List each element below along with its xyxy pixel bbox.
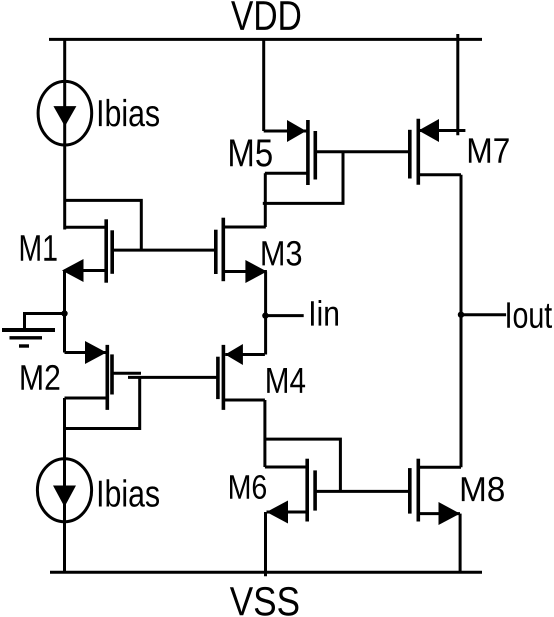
wire: M2 diode connection jog: [65, 377, 140, 428]
current source Ibias1: [38, 81, 92, 145]
M8 label: [462, 477, 504, 502]
M6 label: [230, 475, 266, 499]
transistor M2: [65, 351, 108, 354]
wire: VDD down to M5 source: [262, 39, 265, 131]
transistor M4: [225, 353, 265, 356]
node Iout junction dot: [458, 312, 464, 318]
transistor M7: [418, 129, 465, 132]
VDD rail: [49, 38, 482, 41]
ground: [25, 314, 65, 331]
wire: VDD down through Ibias1 to M1 drain node: [63, 39, 66, 229]
transistor M5: [264, 130, 308, 133]
M3 label: [262, 241, 301, 266]
wire: M5 drain down to M3 drain: [264, 173, 267, 227]
wire: Iin stub: [265, 314, 303, 317]
wire: gate line M5-M7: [315, 150, 410, 153]
VDD label: [231, 1, 300, 30]
wire: M2 drain down through Ibias2 to VSS: [63, 398, 66, 572]
wire: M4 drain down to M6 drain: [263, 400, 266, 467]
wire: gate line M1-M3: [112, 249, 215, 252]
current source Ibias2: [37, 459, 91, 522]
transistor M6: [265, 466, 307, 469]
wire: M1 diode connection jog: [65, 200, 142, 251]
VSS rail: [50, 571, 482, 574]
wire: M1 source to ground node to M2 source: [63, 271, 66, 353]
transistor M3: [214, 230, 218, 274]
M1 label: [21, 235, 57, 260]
Iout label: [507, 302, 552, 328]
M7 label: [469, 138, 509, 162]
wire: Iout stub: [461, 313, 506, 316]
wire: gate line M6-M8: [315, 490, 410, 493]
wire: gate line M2-M4: [128, 376, 218, 379]
transistor M8: [408, 468, 412, 513]
M4 label: [267, 368, 305, 393]
Iin label: [311, 300, 338, 326]
VSS label: [230, 587, 299, 616]
Ibias label (bottom): [99, 479, 159, 507]
node Iin junction dot: [262, 312, 268, 318]
wire: VDD down to M7 source: [456, 34, 459, 135]
Ibias label (top): [99, 99, 159, 127]
wire: M8 source down to VSS: [459, 514, 462, 573]
wire: M3 source to Iin node to M4 source: [264, 272, 267, 355]
wire: M6 diode connection: [265, 439, 341, 492]
M2 label: [21, 365, 59, 390]
M5 label: [230, 140, 272, 167]
wire: M5 diode connection: [263, 152, 343, 204]
wire: M6 source down to VSS: [264, 512, 267, 576]
transistor M1: [65, 226, 107, 229]
node X junction dot: [61, 310, 67, 316]
wire: M7 drain down to Iout node to M8 drain: [460, 175, 463, 467]
